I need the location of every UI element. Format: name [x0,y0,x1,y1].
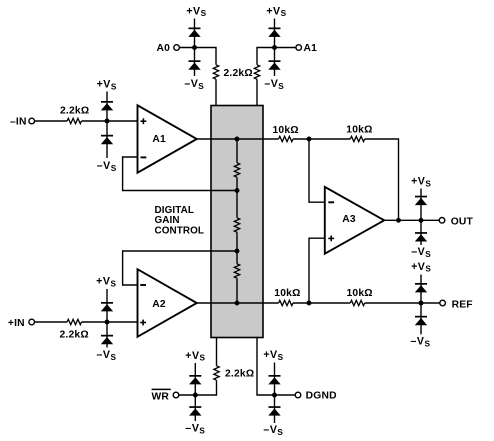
node 10k junction top [307,137,312,142]
svg-text:REF: REF [452,299,473,310]
node chain tap 1 [235,188,240,193]
gain divider chain wire inside block [236,139,238,303]
terminal WR [173,392,179,398]
svg-text:–VS: –VS [411,246,431,259]
svg-text:–VS: –VS [97,160,117,173]
node chain top [235,137,240,142]
svg-text:–VS: –VS [185,423,205,436]
wire WR terminal to bottom-left resistor into block [179,338,216,396]
node at WR clamp [193,393,198,398]
resistor 2.2k at +IN [67,319,81,324]
wire DGND terminal to block bottom [257,338,295,396]
wire A1 logic terminal to top-right resistor into block [257,48,296,106]
svg-text:2.2kΩ: 2.2kΩ [60,329,89,340]
resistor 2.2k top-right (vertical) [254,65,259,79]
diode D10 -VS to WR [189,406,201,415]
svg-text:2.2kΩ: 2.2kΩ [225,368,254,379]
wire A3 output to OUT terminal [384,219,439,221]
clamp stub at REF [420,275,422,335]
node at DGND clamp [272,393,277,398]
svg-text:+VS: +VS [97,79,117,92]
node chain bottom [235,301,240,306]
diode D4 -VS to A1 [268,60,280,69]
wire A1 output row through block to 10k [197,139,399,220]
terminal A0 [174,45,180,51]
diode D6 -VS to -IN [101,135,113,144]
svg-text:+VS: +VS [96,276,116,289]
resistor 2.2k top-left (vertical) [213,65,218,79]
digital gain control block [211,106,263,338]
diode D8 -VS to +IN [101,335,113,344]
node at -IN clamp [105,119,110,124]
pin + of A1 [141,118,147,124]
clamp stub at A1 logic input [274,19,276,77]
svg-text:–VS: –VS [184,78,204,91]
terminal DGND [295,392,301,398]
svg-text:+VS: +VS [186,5,206,18]
diode D11 DGND to +VS [268,375,280,384]
svg-text:10kΩ: 10kΩ [274,288,300,299]
resistor 10k top-left [279,136,293,141]
overline of WR [152,388,171,390]
svg-text:–VS: –VS [263,424,283,437]
svg-text:+IN: +IN [8,318,25,329]
terminal REF [440,300,446,306]
wire A1 feedback (inverting input to divider tap) [123,157,237,191]
wire A2 output / REF row [197,302,440,304]
resistor chain R-b (vertical) [234,218,239,232]
clamp stub at OUT [420,189,422,246]
node A3 output feedback junction [396,218,401,223]
wire +IN input row [35,321,138,323]
pin + of A2 [140,320,146,326]
node at A1 clamp [272,45,277,50]
svg-text:–IN: –IN [10,116,27,127]
node chain tap 2 [235,249,240,254]
terminal -IN [29,118,35,124]
clamp stub at +IN [106,289,108,348]
svg-text:+VS: +VS [185,350,205,363]
op-amp A3 [325,187,384,254]
diode D2 -VS to A0 [188,60,200,69]
clamp stub at WR [194,363,196,421]
wire A3 inverting input [309,139,325,202]
resistor 10k top-right (feedback) [350,136,364,141]
node at A0 clamp [192,45,197,50]
svg-text:DGND: DGND [306,390,337,401]
pin - of A2 [140,284,146,286]
svg-text:A1: A1 [304,43,318,54]
svg-text:10kΩ: 10kΩ [273,125,299,136]
resistor chain R-a (vertical) [234,163,239,177]
svg-text:A0: A0 [157,43,171,54]
pin + of A3 [328,236,334,242]
terminal OUT [439,218,445,224]
svg-text:–VS: –VS [97,349,117,362]
svg-text:–VS: –VS [264,78,284,91]
svg-text:OUT: OUT [451,216,474,227]
svg-text:+VS: +VS [411,176,431,189]
resistor 2.2k bottom-left (vertical) [214,366,219,380]
diode D9 WR to +VS [189,375,201,384]
svg-text:+VS: +VS [266,5,286,18]
clamp stub at DGND [274,363,276,424]
wire A0 terminal to top-left resistor into block [180,48,216,106]
svg-text:10kΩ: 10kΩ [347,288,373,299]
diode D14 -VS to OUT [415,232,427,241]
diode D13 OUT to +VS [415,196,427,205]
terminal +IN [29,319,35,325]
node at +IN clamp [105,320,110,325]
pin - of A1 [141,156,147,158]
svg-text:10kΩ: 10kΩ [346,125,372,136]
resistor 10k bottom-right [350,300,364,305]
diode D5 -IN to +VS [101,101,113,110]
node 10k junction bottom [307,301,312,306]
wire A2 feedback (inverting input to divider tap) [123,251,237,285]
diode D12 -VS to DGND [268,406,280,415]
svg-text:2.2kΩ: 2.2kΩ [60,105,89,116]
op-amp A1 [138,105,197,172]
node at REF clamp [419,301,424,306]
svg-text:A2: A2 [152,299,166,310]
wire -IN input row [35,120,138,122]
svg-text:+VS: +VS [263,349,283,362]
svg-text:A1: A1 [152,134,166,145]
clamp stub at -IN [106,92,108,159]
diode D1 A0 to +VS [188,28,200,37]
svg-text:–VS: –VS [411,336,431,349]
diode D3 A1 to +VS [268,28,280,37]
diode D16 -VS to REF [415,316,427,325]
diode D15 REF to +VS [415,283,427,292]
op-amp A2 [138,269,197,337]
node at OUT clamp [419,218,424,223]
resistor chain R-c (vertical) [234,264,239,278]
svg-text:2.2kΩ: 2.2kΩ [224,68,253,79]
diode D7 +IN to +VS [101,302,113,311]
svg-text:A3: A3 [342,214,356,225]
svg-text:CONTROL: CONTROL [155,225,205,236]
pin - of A3 [328,201,334,203]
terminal A1 [296,45,302,51]
clamp stub at A0 [194,19,196,77]
wire A3 non-inverting input [309,238,325,303]
svg-text:+VS: +VS [411,261,431,274]
svg-text:WR: WR [152,392,170,403]
resistor 2.2k at -IN [67,118,81,123]
resistor 10k bottom-left [279,300,293,305]
